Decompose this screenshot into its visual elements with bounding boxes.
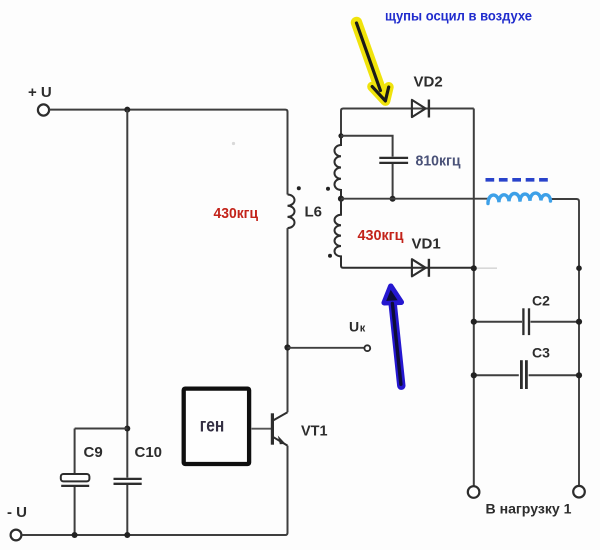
transformer L6 secondary bottom winding — [334, 199, 473, 268]
node junction C3 left — [471, 372, 477, 378]
terminal +U — [28, 84, 52, 116]
terminal -U — [7, 504, 27, 540]
wire erased stub right of VD1 node — [476, 267, 497, 269]
svg-text:к: к — [360, 323, 366, 335]
wire left bus vertical x=474 — [473, 109, 475, 487]
node junction 810 cap to centre-tap wire — [390, 196, 396, 202]
capacitor C9 — [61, 429, 103, 536]
diode VD1 — [412, 236, 441, 277]
capacitor C2 — [474, 293, 579, 336]
diode VD2 — [412, 74, 443, 118]
wire C9 branch horizontal — [75, 428, 128, 430]
node junction 810-branch tap — [338, 133, 343, 138]
svg-text:C2: C2 — [532, 293, 550, 309]
svg-text:VT1: VT1 — [301, 422, 328, 439]
node junction top rail — [124, 107, 130, 113]
node junction centre tap — [338, 196, 344, 202]
svg-text:C3: C3 — [532, 345, 550, 361]
wire bottom rail — [22, 446, 288, 535]
terminal load left — [468, 486, 480, 498]
transistor VT1 — [272, 412, 327, 445]
transformer L6 secondary top winding — [334, 136, 341, 199]
capacitor C3 — [474, 345, 579, 390]
terminal load right — [573, 486, 585, 498]
svg-text:В нагрузку 1: В нагрузку 1 — [486, 501, 572, 517]
wire 810 capacitor branch — [341, 136, 393, 157]
annotation cyan coil scribble — [488, 193, 551, 203]
svg-text:щупы осцил в воздухе: щупы осцил в воздухе — [385, 8, 532, 24]
annotation blue dashed line — [486, 178, 552, 182]
svg-text:L6: L6 — [305, 203, 323, 220]
node junction C3 right — [576, 372, 582, 378]
svg-text:430кгц: 430кгц — [358, 227, 405, 244]
transformer L6 primary winding — [288, 195, 295, 229]
node junction C2 left — [471, 319, 477, 325]
wire output coil to right bus — [552, 199, 580, 486]
capacitor C10 — [114, 444, 163, 535]
wire primary bottom to collector — [287, 228, 289, 412]
wire left vertical bus x=127 — [126, 110, 128, 478]
generator box ген — [184, 389, 249, 464]
annotation yellow arrow — [357, 23, 389, 101]
node junction bottom rail C9 — [72, 532, 78, 538]
wire Uk horizontal — [288, 347, 365, 349]
mark faint smudge — [232, 142, 235, 145]
node junction C2 right — [576, 319, 582, 325]
svg-text:810кгц: 810кгц — [416, 153, 462, 170]
polarity dot primary — [297, 186, 301, 190]
wire centre tap to output coil — [341, 198, 490, 200]
node junction Uk tap — [284, 344, 290, 350]
capacitor 810кгц — [379, 153, 461, 199]
annotation blue arrow — [384, 286, 401, 386]
svg-text:U: U — [349, 319, 359, 335]
polarity dot secondary bottom — [328, 254, 332, 258]
wire top rail from +U to primary — [49, 110, 287, 195]
wire base from ген to VT1 — [252, 428, 272, 430]
svg-text:VD1: VD1 — [412, 236, 441, 253]
node junction right bus VD1 level — [576, 265, 582, 271]
svg-text:+ U: + U — [28, 84, 52, 101]
polarity dot secondary top — [326, 187, 330, 191]
wire VD2 anode from secondary top corner — [341, 109, 474, 136]
node junction VD1 left bus — [471, 265, 477, 271]
svg-text:- U: - U — [7, 504, 27, 521]
svg-text:430кгц: 430кгц — [214, 205, 259, 222]
node junction C9 branch — [124, 426, 130, 432]
svg-text:C10: C10 — [135, 444, 163, 461]
terminal Uk — [349, 319, 370, 352]
svg-text:ген: ген — [200, 416, 225, 437]
svg-text:VD2: VD2 — [414, 74, 443, 91]
svg-text:C9: C9 — [84, 444, 103, 461]
node junction bottom rail C10 — [124, 532, 130, 538]
